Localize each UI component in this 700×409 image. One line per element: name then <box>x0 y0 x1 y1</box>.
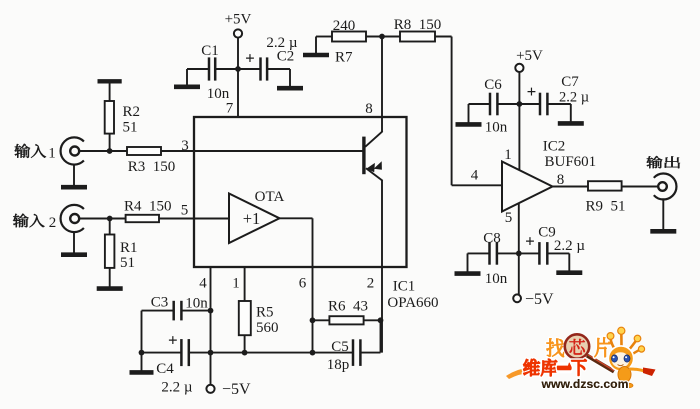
ground for C7 <box>570 104 572 122</box>
node A junction <box>107 148 113 154</box>
svg-text:8: 8 <box>365 101 373 117</box>
op-amp IC1 OPA660 package outline <box>194 117 407 267</box>
svg-text:C1: C1 <box>201 43 219 59</box>
wire R4 to IC1 pin 5 / OTA input <box>159 218 229 220</box>
ground for C8 <box>467 253 469 272</box>
buffer IC2 BUF601 triangle <box>502 162 553 212</box>
svg-text:R4 150: R4 150 <box>124 198 172 214</box>
svg-text:10n: 10n <box>485 120 508 136</box>
watermark text xin (chip) in red <box>570 339 585 354</box>
capacitor C2 (electrolytic) <box>238 68 261 70</box>
ground below R1 <box>109 268 111 287</box>
wire IC2 pin 5 down <box>518 203 520 294</box>
wire +5V down to IC1 pin 7 <box>237 38 239 117</box>
svg-text:OTA: OTA <box>255 189 285 205</box>
svg-text:10n: 10n <box>185 296 208 312</box>
resistor R4 <box>126 215 159 222</box>
wire node A to R3 <box>110 150 127 152</box>
node E junction (pin6/R6) <box>310 317 316 323</box>
watermark mascot head <box>608 346 633 371</box>
watermark text weikuyixia (red) <box>523 359 540 376</box>
svg-text:C2: C2 <box>277 49 295 65</box>
wire J2 to node B <box>79 218 110 220</box>
ground for C9 <box>568 253 570 271</box>
svg-text:5: 5 <box>181 203 189 219</box>
svg-text:51: 51 <box>120 255 135 271</box>
node J junction (pin4 / -5V rail) <box>208 350 214 356</box>
capacitor C8 <box>468 252 490 254</box>
svg-text:R5: R5 <box>256 305 274 321</box>
svg-text:−5V: −5V <box>222 381 251 398</box>
connector J2 input-2 BNC <box>61 205 84 232</box>
wire R2 to node A <box>109 134 111 151</box>
svg-text:1: 1 <box>232 276 240 292</box>
capacitor C9 (electrolytic) <box>519 252 540 254</box>
svg-text:OPA660: OPA660 <box>387 295 438 311</box>
ground for C6 <box>468 104 470 123</box>
-5V supply terminal (right) <box>513 294 521 302</box>
svg-text:+5V: +5V <box>516 48 543 64</box>
node C junction (+5V rail) <box>235 66 241 72</box>
wire OTA output to pin 6 <box>280 217 313 219</box>
label input 2 (Chinese) <box>13 214 29 228</box>
svg-text:2.2 µ: 2.2 µ <box>161 380 193 396</box>
resistor R3 <box>127 147 161 155</box>
svg-text:C5: C5 <box>331 339 349 355</box>
watermark magnifier handle <box>587 356 614 372</box>
svg-text:C8: C8 <box>483 231 501 247</box>
svg-text:IC2: IC2 <box>543 139 566 155</box>
watermark text pian <box>594 337 610 357</box>
wire IC2 output to R9 <box>553 186 589 188</box>
svg-text:1: 1 <box>504 147 512 163</box>
watermark orange swoosh <box>506 367 533 379</box>
capacitor C1 <box>187 68 209 70</box>
wire C3 down to C4 node <box>141 311 143 353</box>
svg-text:BUF601: BUF601 <box>545 154 597 170</box>
svg-text:+: + <box>245 49 255 68</box>
node M junction <box>516 251 522 257</box>
watermark mascot feet <box>613 382 621 386</box>
svg-text:18p: 18p <box>327 357 350 373</box>
resistor R8 <box>400 32 435 42</box>
watermark text zhao (find) <box>546 338 563 357</box>
transistor collector to pin 8 <box>365 131 382 147</box>
capacitor C7 (electrolytic) <box>519 103 540 105</box>
svg-text:C6: C6 <box>484 77 502 93</box>
node B junction <box>107 216 113 222</box>
capacitor C5 <box>313 352 354 354</box>
capacitor C3 <box>142 310 174 312</box>
svg-text:5: 5 <box>505 210 513 226</box>
svg-text:10n: 10n <box>485 271 508 287</box>
wire node B to R1 <box>109 219 111 235</box>
OTA buffer triangle inside IC1 <box>229 194 280 244</box>
wire R8 to IC2 pin 4 <box>435 36 452 38</box>
resistor R1 <box>105 235 115 268</box>
ground for R7 <box>315 37 317 54</box>
node F junction (pin2/R6) <box>378 317 384 323</box>
ground for C2 <box>289 69 291 87</box>
watermark mascot body <box>618 367 631 383</box>
ground below node I <box>141 353 143 371</box>
resistor R6 <box>313 319 330 321</box>
transistor Q inside IC1: base bar <box>362 137 365 175</box>
svg-text:C3: C3 <box>151 295 169 311</box>
node H junction (C3/pin4) <box>208 308 214 314</box>
svg-text:51: 51 <box>123 120 138 136</box>
svg-text:4: 4 <box>471 168 479 184</box>
svg-text:R8 150: R8 150 <box>394 17 442 33</box>
connector J1 input-1 BNC <box>61 137 84 164</box>
svg-text:−5V: −5V <box>525 291 554 308</box>
svg-text:R1: R1 <box>120 240 138 256</box>
ground above R2 <box>98 79 122 83</box>
-5V supply terminal (left) <box>210 353 212 385</box>
svg-text:R2: R2 <box>123 104 141 120</box>
wire +5V down to IC2 pin 1 <box>518 72 520 170</box>
watermark magnifier glass <box>563 333 591 361</box>
ground for C1 <box>186 69 188 85</box>
connector J3 output BNC <box>654 174 677 200</box>
svg-text:R3 150: R3 150 <box>128 159 176 175</box>
watermark mascot arm and red pointer <box>629 369 644 371</box>
svg-text:+: + <box>527 82 537 101</box>
node G junction (pin6 line / C5) <box>310 350 316 356</box>
svg-text:+5V: +5V <box>225 12 252 28</box>
wire R7 to node D <box>366 36 400 38</box>
label output (Chinese) <box>647 156 663 168</box>
svg-text:www.dzsc.com: www.dzsc.com <box>541 377 629 391</box>
watermark mascot mouth <box>618 365 624 366</box>
ground for J1 <box>73 165 75 186</box>
resistor R9 <box>588 181 622 190</box>
watermark mascot antenna bulbs <box>607 333 614 340</box>
svg-text:560: 560 <box>256 320 279 336</box>
node L junction <box>517 101 523 107</box>
svg-text:3: 3 <box>181 138 189 154</box>
svg-text:C4: C4 <box>156 361 174 377</box>
node K junction (R5 bottom) <box>242 350 248 356</box>
capacitor C6 <box>469 103 491 105</box>
svg-text:10n: 10n <box>207 86 230 102</box>
svg-text:4: 4 <box>199 276 207 292</box>
svg-text:R7: R7 <box>335 50 353 66</box>
wire R5 node to pin6 node <box>245 352 313 354</box>
capacitor C4 (electrolytic) <box>142 352 182 354</box>
svg-text:2: 2 <box>49 215 57 231</box>
svg-text:C7: C7 <box>561 74 579 90</box>
svg-text:IC1: IC1 <box>393 279 416 295</box>
resistor R5 <box>239 301 251 335</box>
watermark mascot antenna stalks <box>611 338 617 351</box>
wire -5V rail to R5 node <box>211 352 245 354</box>
svg-text:+: + <box>525 232 535 251</box>
wire IC1 pin 1 to R5 <box>244 267 246 301</box>
svg-text:7: 7 <box>226 101 234 117</box>
svg-text:6: 6 <box>299 276 307 292</box>
wire ground to R2 <box>109 83 111 101</box>
node D junction <box>379 34 385 40</box>
resistor R2 <box>105 101 114 134</box>
wire R9 to output BNC <box>622 186 659 188</box>
wire IC1 pin 6 down <box>312 267 314 353</box>
svg-text:+1: +1 <box>243 209 261 228</box>
label input 1 (Chinese) <box>15 144 31 158</box>
svg-text:+: + <box>168 331 178 350</box>
wire IC1 pin 4 down <box>210 267 212 353</box>
svg-text:2: 2 <box>367 276 375 292</box>
wire J1 to node A <box>79 150 110 152</box>
svg-text:240: 240 <box>333 18 356 34</box>
ground for J3 <box>662 198 664 230</box>
wire node B to R4 <box>110 218 126 220</box>
svg-text:2.2 µ: 2.2 µ <box>559 90 589 106</box>
node I junction <box>139 350 145 356</box>
svg-text:1: 1 <box>48 146 56 162</box>
resistor R7 240 <box>332 32 366 42</box>
wire node D down to IC1 pin 8 <box>381 37 383 118</box>
watermark mascot eyes <box>612 355 618 362</box>
svg-text:R6 43: R6 43 <box>328 299 368 315</box>
transistor emitter with double arrows to pin 2 <box>366 168 383 181</box>
svg-text:R9 51: R9 51 <box>585 199 625 215</box>
svg-text:2.2 µ: 2.2 µ <box>554 238 586 254</box>
ground for J2 <box>73 232 75 253</box>
wire R3 to IC1 pin 3 / transistor base <box>161 150 364 152</box>
wire R5 to -5V rail <box>244 335 246 352</box>
